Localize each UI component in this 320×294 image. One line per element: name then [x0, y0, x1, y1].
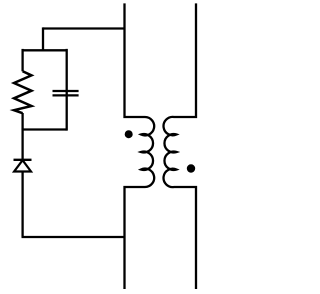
capacitor C bottom plate — [53, 94, 79, 96]
wire bottom horizontal to primary — [22, 236, 125, 238]
wire snubber box top — [23, 49, 67, 51]
diode D cathode bar — [14, 159, 32, 161]
wire diode bottom lead — [21, 172, 23, 238]
wire top vertical into snubber box — [42, 27, 44, 50]
wire diode top lead — [21, 128, 23, 159]
transformer secondary winding T1 — [164, 3, 196, 289]
primary polarity dot — [125, 130, 133, 138]
wire resistor top lead — [21, 49, 23, 71]
wire top horizontal from snubber to primary — [43, 27, 125, 29]
wire snubber box bottom — [23, 128, 67, 130]
capacitor C top plate — [53, 90, 79, 92]
transformer primary winding T1 — [125, 3, 155, 289]
diode D triangle — [14, 160, 31, 171]
wire capacitor branch vertical — [66, 49, 68, 131]
wire resistor bottom lead — [21, 113, 23, 130]
resistor R — [14, 71, 32, 113]
secondary polarity dot — [187, 164, 195, 172]
